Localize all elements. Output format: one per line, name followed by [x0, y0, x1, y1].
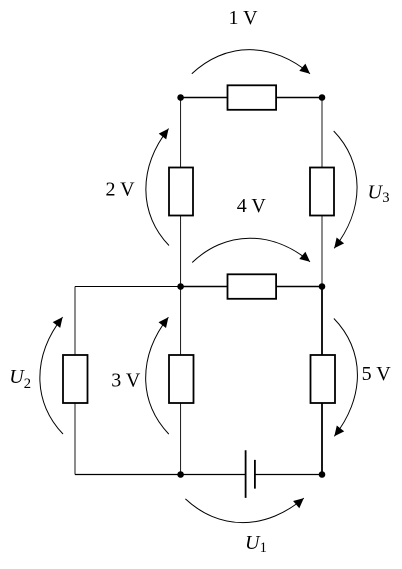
svg-text:3 V: 3 V: [111, 369, 141, 391]
svg-text:2: 2: [24, 376, 31, 392]
svg-text:2 V: 2 V: [106, 179, 136, 201]
svg-text:1 V: 1 V: [229, 7, 259, 29]
svg-text:U: U: [368, 181, 384, 203]
svg-text:1: 1: [260, 540, 267, 556]
svg-text:5 V: 5 V: [362, 363, 392, 385]
svg-text:4 V: 4 V: [237, 195, 267, 217]
svg-text:U: U: [245, 532, 261, 554]
svg-text:3: 3: [382, 190, 389, 206]
